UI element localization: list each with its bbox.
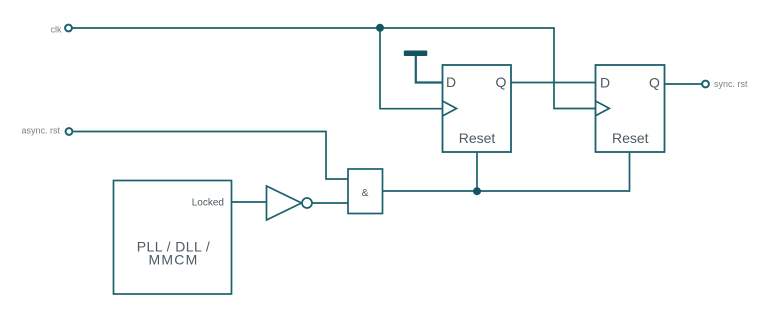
junction clk branch dot xyxy=(376,24,384,32)
gate U3 AND xyxy=(348,169,383,214)
power constant-1 tie bar xyxy=(404,51,428,57)
wire FF1 Q to FF2 D xyxy=(511,82,596,84)
svg-text:async. rst: async. rst xyxy=(21,126,60,136)
wire async rst to AND gate input xyxy=(74,132,349,180)
svg-text:D: D xyxy=(600,75,610,91)
svg-text:sync. rst: sync. rst xyxy=(714,79,748,89)
svg-text:&: & xyxy=(361,187,368,199)
svg-text:Reset: Reset xyxy=(459,130,496,146)
wire Locked to inverter xyxy=(231,201,266,203)
flip-flop FF1 box xyxy=(443,65,512,152)
svg-text:Locked: Locked xyxy=(192,198,224,209)
junction reset rail dot xyxy=(473,187,481,195)
svg-text:Reset: Reset xyxy=(612,130,649,146)
wire FF2 Q to output terminal xyxy=(665,83,702,85)
pin FF1 clock triangle xyxy=(443,101,457,116)
inverter U2 triangle xyxy=(267,186,302,220)
inverter U2 bubble xyxy=(302,198,312,208)
wire clk horizontal xyxy=(73,28,596,109)
wire reset rail to FF1 reset xyxy=(476,152,478,191)
wire clk branch to FF1 clock xyxy=(380,28,443,109)
pin FF2 clock triangle xyxy=(596,101,610,116)
svg-text:Q: Q xyxy=(496,74,507,90)
svg-text:Q: Q xyxy=(649,75,660,91)
wire inverter to AND gate input xyxy=(313,202,349,204)
svg-text:D: D xyxy=(446,74,456,90)
node async rst input terminal xyxy=(66,128,73,135)
node sync rst output terminal xyxy=(702,81,709,88)
node clk input terminal xyxy=(65,25,72,32)
block U1 PLL / DLL / MMCM xyxy=(114,181,232,295)
svg-text:MMCM: MMCM xyxy=(149,252,199,268)
flip-flop FF2 box xyxy=(596,65,665,152)
wire AND output reset rail xyxy=(383,152,630,191)
wire constant-1 stem to FF1 D xyxy=(416,54,443,83)
svg-text:clk: clk xyxy=(51,25,62,35)
